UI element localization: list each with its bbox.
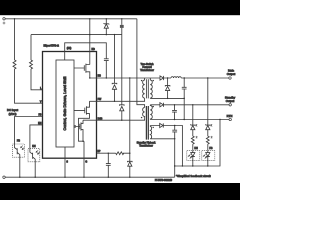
svg-text:HiperTFS-2: HiperTFS-2 bbox=[44, 43, 60, 47]
zener VR1 input clamp bbox=[104, 19, 110, 35]
capacitor C4 standby 2 bbox=[172, 126, 177, 139]
wire EN pin to optocoupler bbox=[30, 125, 43, 149]
DC input + terminal bbox=[3, 18, 5, 20]
wire main output bbox=[164, 77, 229, 79]
U3 transistor bbox=[30, 149, 35, 178]
svg-text:FB: FB bbox=[209, 147, 212, 150]
transistor Q2 low-side MOSFET bbox=[74, 101, 90, 141]
diode D6 standby clamp bbox=[120, 35, 125, 121]
resistor R5 (FB) bbox=[206, 136, 209, 151]
svg-text:*Simplified feedback circuit: *Simplified feedback circuit bbox=[176, 174, 211, 178]
svg-text:EN: EN bbox=[194, 147, 198, 150]
zener VR3 (FB) bbox=[205, 78, 210, 136]
svg-text:HD: HD bbox=[92, 49, 96, 51]
svg-text:Transformer: Transformer bbox=[139, 143, 153, 147]
capacitor C5 main output bbox=[182, 78, 187, 98]
T2 primary winding bbox=[143, 107, 145, 119]
capacitor C1 bootstrap bbox=[104, 59, 109, 78]
inductor L1 bbox=[171, 77, 181, 78]
controller block bbox=[56, 60, 74, 147]
wire DSB standby drain bbox=[83, 119, 145, 120]
svg-text:Output: Output bbox=[227, 72, 236, 76]
T2 secondary winding S1 bbox=[150, 105, 152, 120]
svg-text:FW: FW bbox=[98, 99, 102, 101]
wire bias riser bbox=[129, 78, 131, 162]
optocoupler U3 phototransistor (EN) bbox=[28, 149, 40, 162]
Standby Output terminal bbox=[229, 104, 231, 106]
wire feedback common return bbox=[175, 120, 220, 167]
svg-text:FB: FB bbox=[17, 140, 20, 143]
svg-text:FB: FB bbox=[38, 114, 41, 117]
resistor R3 bias bbox=[116, 152, 130, 155]
resistor R1 (line sense upper) bbox=[13, 19, 43, 103]
fuse F1 bbox=[121, 19, 123, 35]
wire secondary ground drop to RTN bbox=[183, 98, 185, 119]
transformer T1 two-switch forward bbox=[146, 79, 148, 98]
diode D3 standby rectifier 1 bbox=[160, 103, 164, 107]
wire secondary ground bbox=[150, 97, 184, 99]
svg-text:EN: EN bbox=[32, 145, 36, 148]
wire BP pin bbox=[97, 152, 116, 154]
svg-text:HS: HS bbox=[98, 75, 102, 77]
diode D7 bias bbox=[128, 161, 133, 177]
top black banner bbox=[0, 0, 240, 15]
bottom black banner bbox=[0, 183, 240, 200]
RTN terminal bbox=[229, 118, 231, 120]
diode D5 forward clamp bbox=[112, 35, 117, 102]
T2 secondary winding S2 bbox=[150, 126, 151, 139]
wire: standby primary feed from input rail bbox=[137, 19, 145, 108]
T1 primary winding bbox=[143, 78, 145, 98]
wire HS switch node bbox=[90, 77, 160, 79]
resistor R4 (EN) bbox=[191, 136, 194, 151]
DC input - terminal (bottom) bbox=[3, 176, 5, 178]
svg-text:Control, Gate Drivers, Level S: Control, Gate Drivers, Level Shift bbox=[63, 77, 67, 131]
U2 transistor bbox=[15, 144, 20, 177]
wire HD riser bbox=[89, 19, 91, 65]
svg-text:DSB: DSB bbox=[98, 118, 103, 120]
zener VR2 (EN) bbox=[190, 105, 195, 136]
svg-text:S: S bbox=[66, 161, 68, 163]
IC U1 HiperTFS-2 outline bbox=[43, 52, 97, 159]
wire: top input rail bbox=[5, 18, 137, 20]
svg-text:RTN: RTN bbox=[227, 114, 233, 118]
svg-text:PI-7079-082210: PI-7079-082210 bbox=[155, 179, 173, 182]
diode D2 freewheel bbox=[165, 78, 170, 98]
plus sign at input bbox=[3, 22, 6, 25]
transistor Q1 high-side MOSFET bbox=[74, 64, 90, 78]
optocoupler U3 LED (EN) bbox=[187, 151, 200, 161]
optocoupler U2 phototransistor (FB) bbox=[13, 144, 25, 157]
wire forward primary return bbox=[90, 98, 145, 101]
svg-text:BP: BP bbox=[97, 151, 101, 153]
svg-text:G: G bbox=[85, 161, 87, 163]
wire RTN bbox=[150, 119, 229, 121]
wire standby winding 2 output bbox=[150, 126, 182, 167]
diode D4 standby rectifier 2 bbox=[160, 123, 164, 127]
svg-text:Transformer: Transformer bbox=[140, 68, 154, 72]
wire standby output bbox=[150, 104, 229, 106]
svg-text:(VDC): (VDC) bbox=[9, 112, 17, 116]
wire VB bootstrap bbox=[65, 43, 107, 60]
svg-text:Output: Output bbox=[226, 99, 235, 103]
Main Output terminal bbox=[229, 77, 231, 79]
transformer T2 standby flyback bbox=[146, 106, 148, 140]
wire: bottom return rail bbox=[5, 176, 175, 178]
wire controller ground pin bbox=[64, 147, 66, 177]
T1 secondary winding bbox=[150, 78, 152, 98]
wire: second input rail bbox=[31, 34, 122, 36]
svg-text:EN: EN bbox=[38, 122, 42, 125]
T1 polarity dots bbox=[141, 80, 142, 81]
T2 polarity dots bbox=[141, 117, 142, 118]
diode D1 forward rectifier bbox=[160, 76, 164, 80]
svg-text:(U1): (U1) bbox=[67, 48, 72, 50]
wire standby winding 2 return bbox=[150, 139, 174, 177]
capacitor C3 standby 1 bbox=[172, 105, 177, 120]
transistor Q3 standby MOSFET bbox=[74, 126, 76, 128]
wire FB pin to optocoupler bbox=[15, 117, 43, 145]
resistor R2 (line sense lower) bbox=[30, 35, 43, 90]
capacitor C2 BP bypass bbox=[106, 153, 111, 177]
wire source/ground pin bbox=[83, 141, 85, 177]
optocoupler U2 LED (FB) bbox=[202, 151, 215, 161]
